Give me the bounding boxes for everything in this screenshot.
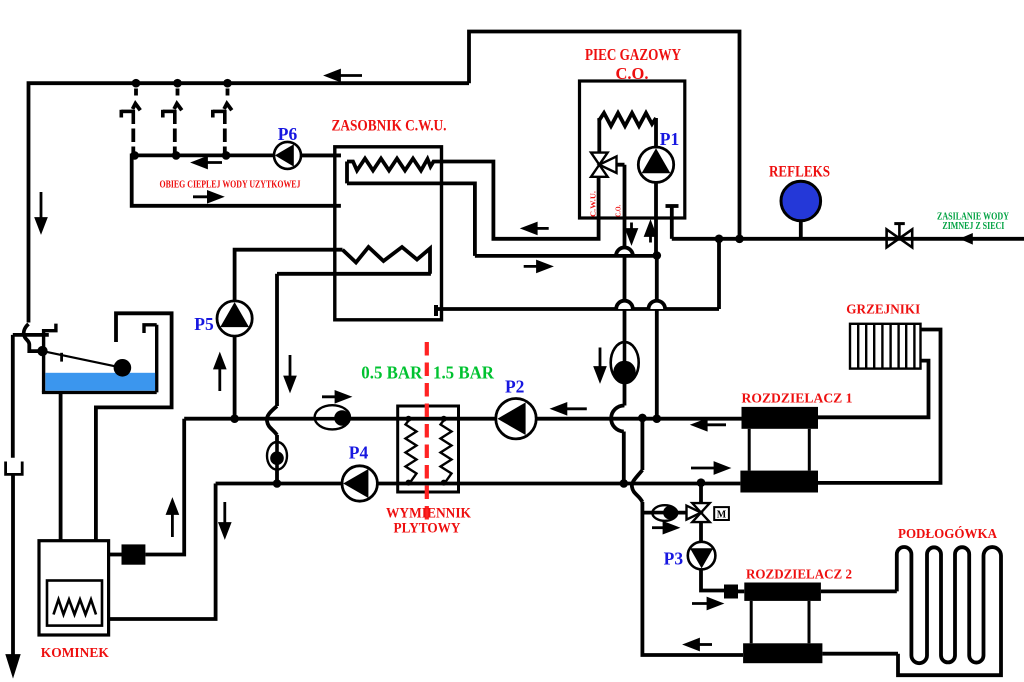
svg-text:PODŁOGÓWKA: PODŁOGÓWKA — [898, 525, 997, 541]
drain funnel — [6, 462, 23, 475]
manifold R1 connector right — [808, 429, 811, 471]
node P1 return tee x=655.7 — [653, 414, 662, 423]
arrow up beside P5 — [215, 356, 225, 392]
arrow right above R1 return — [691, 463, 728, 473]
svg-text:KOMINEK: KOMINEK — [41, 645, 109, 660]
pump P4 — [342, 466, 377, 501]
wire tank upper coil bottom run to P1 with bridge — [347, 183, 475, 256]
node bridge y=309 over x=624.5 — [616, 301, 633, 309]
coil tank lower heating zigzag — [343, 247, 431, 274]
svg-text:C.W.U.: C.W.U. — [589, 191, 598, 217]
pump P3 — [688, 542, 716, 570]
arrow down CO under boiler — [627, 223, 637, 243]
valve gate on cold main — [887, 224, 913, 248]
valve tap 1 — [121, 104, 140, 124]
arrow right below check D — [652, 523, 677, 533]
boiler PIEC GAZOWY box — [580, 81, 685, 218]
node mixing tee x=642.4 — [638, 414, 647, 423]
wire drain lower — [11, 474, 15, 658]
wire tap drop 2 dashed — [175, 89, 178, 155]
valve mixing 3-way with M actuator — [687, 503, 729, 522]
node P5 tee — [230, 414, 239, 423]
svg-text:C.O.: C.O. — [616, 64, 649, 83]
svg-text:ROZDZIELACZ 1: ROZDZIELACZ 1 — [742, 391, 853, 406]
arrow right coil return line — [524, 262, 550, 272]
connector square R2 — [724, 585, 738, 599]
coil floor heating serpentine PODLOGOWKA — [897, 547, 1001, 675]
wire P1 column — [654, 118, 658, 256]
svg-text:C.O.: C.O. — [614, 205, 623, 217]
wire cold feed to tank y=309 — [436, 307, 719, 311]
arrow left above R2 return — [686, 640, 712, 650]
node tap2 top — [173, 79, 182, 88]
svg-text:P1: P1 — [660, 129, 679, 149]
wire overflow line y=336 — [13, 333, 49, 337]
wire boiler vent T stem — [670, 206, 674, 239]
pump P5 — [217, 301, 252, 336]
wire valve to CO connector — [607, 163, 625, 167]
arrow left on tap circulation — [194, 158, 222, 168]
svg-text:WYMIENNIK: WYMIENNIK — [386, 506, 472, 522]
node tap1 bottom — [130, 151, 139, 160]
divider red dashed 0.5/1.5 BAR — [425, 342, 429, 520]
wire tank lower coil return drop x=277 — [275, 274, 279, 406]
svg-text:P4: P4 — [349, 443, 369, 463]
wire kominek supply line y=418.7 — [184, 417, 741, 421]
wire expansion feed jog at y=336 — [24, 324, 43, 351]
fireplace flame zigzag — [54, 600, 97, 615]
svg-text:M: M — [717, 510, 727, 521]
wire P5 riser — [235, 250, 343, 419]
valve tap 3 — [213, 104, 232, 124]
radiator GRZEJNIKI body — [850, 324, 921, 369]
pump P6 — [274, 142, 301, 169]
coil exchanger left plate — [406, 419, 417, 483]
arrow down beside check A — [595, 348, 605, 381]
wire M valve top feed — [699, 483, 703, 513]
node bridge y=255.9 over x=624.5 — [616, 247, 633, 255]
manifold ROZDZIELACZ 1 upper bar — [742, 407, 819, 429]
arrow down beside expansion pipe — [36, 192, 46, 231]
arrow right below P3 out — [692, 599, 721, 609]
wire tap drop 1 dashed — [133, 89, 136, 155]
svg-text:ROZDZIELACZ 2: ROZDZIELACZ 2 — [746, 567, 852, 582]
wire tank coil return to P1 y=255.9 — [475, 254, 657, 258]
node C-arc crossing x=624.5 y=418.7 — [611, 405, 624, 431]
wire mixing drop x=643 — [641, 418, 645, 470]
vessel open expansion tank left wall — [44, 324, 56, 393]
vessel right lip — [144, 325, 157, 333]
wire kominek return drop — [109, 484, 216, 620]
valve boiler 3-way — [591, 153, 617, 177]
wire exchanger return line y=483.5 — [216, 482, 741, 486]
fireplace KOMINEK box — [39, 541, 109, 635]
svg-text:PLYTOWY: PLYTOWY — [394, 521, 461, 537]
float valve stub — [60, 353, 63, 362]
node tap3 bottom — [222, 151, 231, 160]
float valve body — [37, 346, 47, 356]
wire R2 connector stub — [738, 590, 744, 594]
manifold ROZDZIELACZ 2 lower bar — [743, 643, 822, 663]
svg-text:P2: P2 — [505, 377, 524, 397]
svg-text:P3: P3 — [664, 549, 684, 569]
wire main cold line right segment — [672, 237, 1024, 241]
wire tank upper coil left — [345, 162, 349, 184]
svg-text:P6: P6 — [278, 124, 298, 144]
valve check C before exchanger — [315, 405, 350, 429]
svg-text:0.5 BAR: 0.5 BAR — [361, 363, 422, 383]
manifold R2 connector left — [750, 601, 753, 643]
arrow big cold water inlet — [959, 233, 973, 245]
arrow up kominek riser — [168, 501, 178, 537]
pump P1 — [638, 147, 673, 182]
fireplace KOMINEK window — [47, 581, 102, 626]
node exchanger coil dots — [406, 416, 447, 486]
wire tank lower coil bottom line y=273.8 — [277, 272, 431, 276]
pump P2 — [496, 399, 536, 439]
vessel REFLEKS expansion — [781, 181, 821, 221]
node slip crossing x=277 y=418.7 — [267, 406, 277, 435]
node coil return tee x=277 — [273, 479, 282, 488]
node tap1 top — [132, 79, 141, 88]
manifold ROZDZIELACZ 2 upper bar — [744, 583, 821, 601]
wire CO supply column — [623, 165, 627, 406]
wire mixing column to R2 return — [642, 502, 743, 655]
node CO supply tee — [620, 479, 629, 488]
wire top loop horizontal y=31.5 — [469, 32, 740, 239]
connector square kominek — [122, 544, 146, 564]
wire check valve D line — [642, 511, 701, 515]
arrow left below R1 supply — [694, 420, 726, 430]
arrow left right of P2 — [553, 404, 586, 414]
float arm — [43, 351, 123, 368]
wire cold feed drop x=719 — [717, 239, 721, 309]
node cold main x=719 — [715, 235, 724, 244]
heat exchanger WYMIENNIK box — [398, 406, 459, 492]
wire R2 return from serpentine — [822, 652, 898, 656]
arrow right above check C — [322, 392, 349, 402]
wire radiator top to R1 return — [818, 330, 941, 483]
manifold ROZDZIELACZ 1 lower bar — [740, 471, 818, 493]
wire boiler heating element left drop — [597, 118, 601, 153]
valve check D before M valve — [652, 505, 677, 521]
svg-text:OBIEG CIEPLEJ WODY UZYTKOWEJ: OBIEG CIEPLEJ WODY UZYTKOWEJ — [160, 180, 301, 191]
vessel open expansion tank right wall — [155, 325, 158, 393]
arrow left on top line — [327, 71, 362, 81]
valve check B on x=277 — [267, 442, 287, 470]
arrow down drain bottom — [7, 656, 19, 675]
wire tap circulation line y=155.4 — [132, 155, 341, 205]
svg-text:ZIMNEJ Z SIECI: ZIMNEJ Z SIECI — [942, 221, 1004, 232]
wire P6 entry stub — [288, 153, 341, 157]
svg-text:PIEC GAZOWY: PIEC GAZOWY — [585, 45, 681, 64]
arrow down kominek return — [220, 502, 230, 536]
float ball — [114, 359, 132, 377]
valve tap 2 — [163, 104, 182, 124]
svg-text:ZASOBNIK C.W.U.: ZASOBNIK C.W.U. — [332, 118, 447, 135]
wire cold feed tank flange — [434, 305, 438, 316]
node P1 coil return — [653, 251, 662, 260]
svg-text:GRZEJNIKI: GRZEJNIKI — [846, 302, 920, 317]
node slip crossing x=643 y=483.5 — [632, 470, 643, 502]
wire drain upper — [11, 335, 15, 458]
svg-text:1.5 BAR: 1.5 BAR — [433, 363, 494, 383]
arrow down beside coil drop — [285, 355, 295, 390]
water fill — [45, 373, 155, 391]
wire M valve to P3 to R2 — [701, 513, 724, 591]
bridges (white masked humps) — [616, 247, 665, 309]
node tap3 top — [223, 79, 232, 88]
wire tank upper coil top run to boiler — [347, 159, 599, 239]
vessel open expansion tank bottom — [42, 391, 157, 394]
node tap2 bottom — [172, 151, 181, 160]
wire kominek square stub — [109, 553, 122, 557]
svg-text:REFLEKS: REFLEKS — [769, 164, 830, 181]
node bridge y=309 over x=656.8 — [649, 301, 666, 309]
wire top main line y=83 — [29, 83, 470, 322]
manifold R1 connector left — [748, 429, 751, 471]
coil exchanger right plate — [441, 419, 452, 483]
wire kominek hot outlet riser — [145, 419, 184, 555]
wire boiler vent T cap — [666, 204, 679, 208]
manifold R2 connector right — [808, 601, 811, 643]
node M valve tee — [697, 478, 706, 487]
coil boiler heating element zigzag — [599, 113, 656, 126]
arrow right OBIEG return — [193, 192, 221, 202]
wire tank discharge loop around expansion vessel — [96, 313, 172, 540]
tank ZASOBNIK CWU box — [335, 147, 442, 320]
wire R2 supply to serpentine — [821, 590, 897, 594]
node cold main x=739.5 — [735, 235, 744, 244]
valve check A on CO column — [611, 342, 639, 383]
wire R1 supply right to radiator — [818, 361, 929, 418]
wire tap drop 3 dashed — [225, 89, 228, 155]
wire refleks stem — [799, 219, 803, 239]
arrow up P1 under boiler — [646, 223, 656, 243]
svg-text:P5: P5 — [194, 314, 214, 334]
arrow left CWU line — [524, 224, 549, 234]
wire expansion tank to kominek — [59, 392, 63, 540]
wire P1 return column lower — [655, 256, 659, 419]
